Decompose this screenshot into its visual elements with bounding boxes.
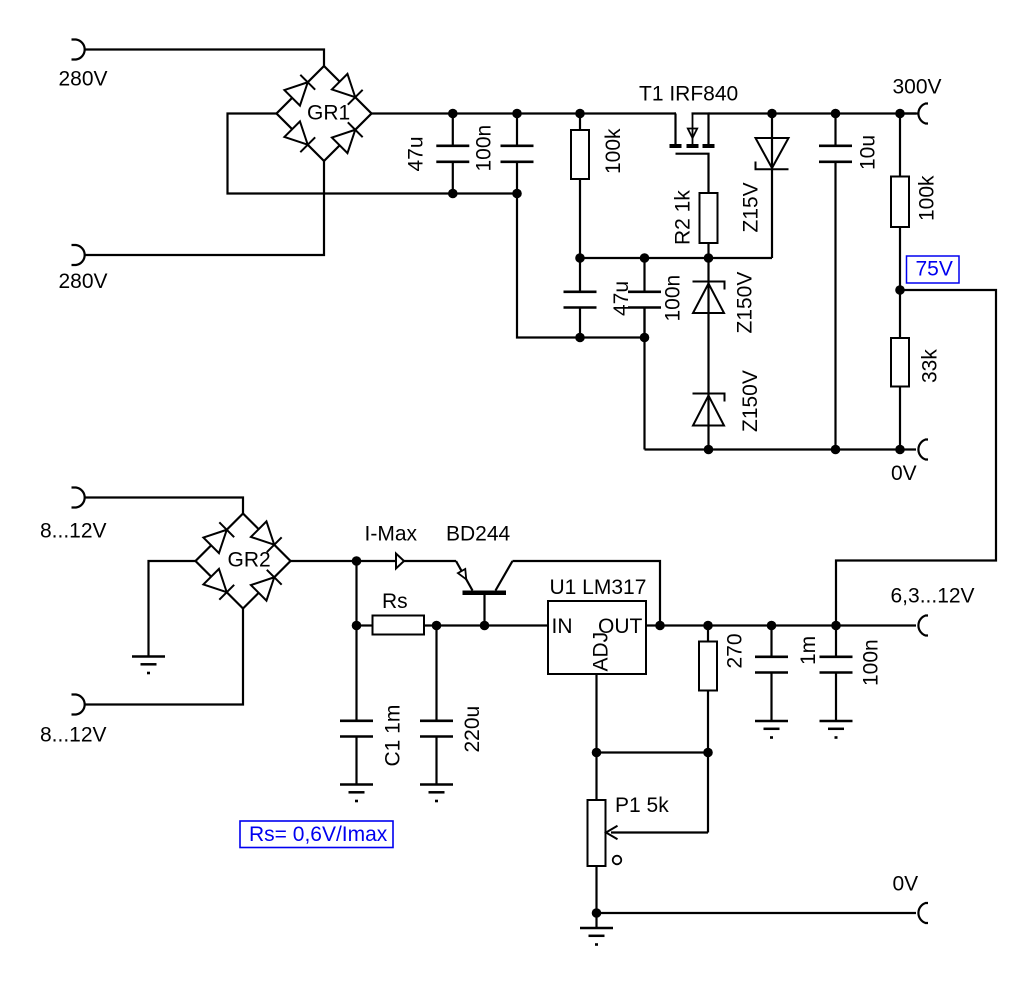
diode arrow I-Max — [396, 554, 404, 569]
wire input-a to GR1 top — [85, 50, 325, 67]
junction dot — [655, 621, 665, 631]
junction dot — [895, 109, 905, 119]
capacitor 10u — [834, 114, 836, 146]
junction dot — [512, 189, 522, 199]
svg-text:Z15V: Z15V — [740, 182, 763, 232]
resistor 100k (divider top) — [899, 114, 901, 177]
transistor T1 source channel bar — [703, 144, 715, 148]
ground (220u) — [420, 783, 453, 786]
svg-text:GR2: GR2 — [228, 549, 271, 572]
svg-text:10u: 10u — [857, 135, 880, 170]
node 75V box — [907, 256, 960, 283]
terminal 280V (input b) — [72, 245, 85, 265]
wire GR2 plus rail — [291, 560, 457, 562]
transistor BD244 emitter lead — [456, 561, 473, 591]
junction dot — [480, 621, 490, 631]
junction dot — [575, 253, 585, 263]
wire source rail to 300V — [709, 112, 917, 114]
junction dot — [512, 109, 522, 119]
svg-text:6,3...12V: 6,3...12V — [891, 585, 975, 608]
junction dot — [592, 908, 602, 918]
svg-text:BD244: BD244 — [446, 523, 511, 546]
terminal 0V (top) — [918, 440, 928, 460]
bridge rectifier GR1 body — [277, 66, 372, 161]
GR1 diode bottom-right — [332, 130, 355, 153]
wire ADJ rail — [597, 751, 709, 753]
terminal 8...12V (input b) — [72, 695, 85, 715]
wire ADJ — [595, 674, 597, 753]
wire GR2 plus drop — [355, 561, 357, 626]
junction dot — [640, 253, 650, 263]
svg-text:100n: 100n — [662, 275, 685, 322]
transistor BD244 emitter arrow — [458, 569, 466, 579]
svg-text:C1 1m: C1 1m — [382, 705, 405, 767]
svg-text:75V: 75V — [916, 257, 953, 280]
junction dot — [831, 109, 841, 119]
ground (GR2) — [132, 655, 165, 658]
wire collector to OUT node — [513, 561, 661, 626]
junction dot — [895, 445, 905, 455]
svg-text:8...12V: 8...12V — [40, 520, 107, 543]
potentiometer end-stop circle — [613, 856, 622, 865]
svg-text:280V: 280V — [59, 270, 108, 293]
junction dot — [831, 621, 841, 631]
svg-text:100n: 100n — [860, 639, 883, 686]
transistor T1 bulk channel bar — [687, 144, 699, 148]
GR2 diode top-right — [251, 521, 274, 544]
wire input to GR2 top — [85, 498, 244, 514]
wire gate rail y=258 — [580, 257, 772, 259]
svg-text:220u: 220u — [461, 706, 484, 753]
resistor 270 — [707, 626, 709, 642]
junction dot — [352, 621, 362, 631]
junction dot — [767, 621, 777, 631]
wire GR2 left to ground — [149, 561, 196, 657]
svg-text:8...12V: 8...12V — [40, 724, 107, 747]
ground (1m) — [755, 720, 788, 723]
svg-text:100k: 100k — [916, 175, 939, 221]
terminal 6,3...12V — [918, 616, 928, 636]
terminal 8...12V (input a) — [72, 488, 85, 508]
wire 0V rail (bottom) — [597, 912, 917, 914]
wire minus rail drop x=517 — [517, 194, 645, 338]
transistor BD244 base bar — [463, 591, 507, 596]
svg-text:47u: 47u — [610, 281, 633, 316]
wire OUT rail — [646, 624, 916, 626]
junction dot — [703, 748, 713, 758]
wire plus rail GR1 to MOSFET drain — [372, 112, 677, 114]
capacitor 47u (gate filter) — [579, 258, 581, 292]
svg-text:ADJ: ADJ — [590, 632, 613, 672]
capacitor 100n (gate filter) — [643, 258, 645, 292]
svg-text:0V: 0V — [893, 873, 919, 896]
wire GR1 bottom to input-b — [85, 161, 325, 255]
ground (100n) — [820, 720, 853, 723]
svg-text:1m: 1m — [797, 636, 820, 665]
wire Rs to U1 IN — [424, 624, 548, 626]
terminal 0V (bottom) — [918, 903, 928, 923]
junction dot 75V node — [895, 285, 905, 295]
ground (C1) — [340, 783, 373, 786]
svg-text:GR1: GR1 — [307, 102, 350, 125]
wire to Rs — [357, 624, 373, 626]
wire to 300V terminal — [900, 112, 918, 114]
svg-text:47u: 47u — [405, 136, 428, 171]
junction dot — [352, 556, 362, 566]
GR1 diode bottom-left — [284, 121, 307, 144]
junction dot — [575, 333, 585, 343]
svg-text:300V: 300V — [893, 76, 942, 99]
svg-text:Rs= 0,6V/Imax: Rs= 0,6V/Imax — [249, 823, 388, 846]
terminal 280V (top input a) — [72, 40, 85, 60]
resistor 100k (gate bias) — [579, 114, 581, 131]
capacitor 220u — [435, 626, 437, 721]
transistor T1 drain channel bar — [670, 144, 682, 148]
transistor BD244 collector lead — [496, 561, 513, 591]
wire GR1 left to minus rail — [228, 114, 518, 194]
svg-text:P1 5k: P1 5k — [615, 794, 669, 817]
ground (P1) — [595, 913, 597, 928]
wire GR2 bottom to input-b — [85, 609, 244, 705]
junction dot — [448, 109, 458, 119]
zener diode Z15V — [756, 138, 789, 168]
GR1 diode top-left — [284, 82, 307, 105]
resistor Rs body — [373, 616, 425, 635]
transistor T1 source lead — [692, 114, 709, 145]
zener diode Z150V (upper) — [693, 284, 724, 314]
svg-text:100k: 100k — [602, 128, 625, 174]
transistor T1 bulk lead — [692, 114, 694, 145]
GR2 diode bottom-right — [251, 577, 274, 600]
transistor T1 bulk arrow — [688, 129, 697, 139]
svg-text:100n: 100n — [473, 125, 496, 172]
wire 75V tap link — [836, 290, 996, 626]
potentiometer P1 wiper — [611, 831, 708, 833]
junction dot — [767, 109, 777, 119]
resistor R2 1k body — [700, 193, 718, 243]
resistor 33k — [899, 290, 901, 338]
capacitor 100n (input filter) — [516, 114, 518, 146]
junction dot — [592, 748, 602, 758]
svg-text:Z150V: Z150V — [734, 272, 757, 334]
svg-text:33k: 33k — [919, 349, 942, 383]
regulator U1 LM317 box — [548, 601, 646, 674]
wire 0V rail (top section) — [645, 448, 917, 450]
svg-text:270: 270 — [724, 633, 747, 668]
svg-text:280V: 280V — [59, 67, 108, 90]
GR2 diode bottom-left — [203, 569, 226, 592]
junction dot — [432, 621, 442, 631]
GR2 diode top-left — [203, 530, 226, 553]
terminal 300V — [918, 104, 928, 124]
potentiometer P1 body — [595, 753, 597, 801]
junction dot — [575, 109, 585, 119]
svg-text:T1 IRF840: T1 IRF840 — [639, 83, 738, 106]
transistor T1 gate line — [676, 154, 709, 193]
svg-text:IN: IN — [552, 615, 573, 638]
capacitor C1 1m — [355, 626, 357, 721]
svg-text:Z150V: Z150V — [739, 370, 762, 432]
capacitor 1m (output) — [770, 626, 772, 657]
svg-text:I-Max: I-Max — [365, 523, 418, 546]
junction dot — [640, 333, 650, 343]
junction dot — [831, 445, 841, 455]
GR1 diode top-right — [332, 74, 355, 97]
svg-text:R2 1k: R2 1k — [672, 190, 695, 245]
junction dot — [704, 253, 714, 263]
svg-text:0V: 0V — [891, 462, 917, 485]
junction dot — [448, 189, 458, 199]
transistor T1 drain lead — [674, 114, 677, 145]
bridge rectifier GR2 body — [196, 514, 291, 609]
svg-text:Rs: Rs — [382, 590, 408, 613]
zener diode Z150V (lower) — [693, 396, 724, 426]
junction dot — [704, 445, 714, 455]
capacitor 47u (input filter) — [452, 114, 454, 146]
junction dot — [703, 621, 713, 631]
formula box Rs — [240, 821, 393, 848]
svg-text:U1 LM317: U1 LM317 — [550, 576, 647, 599]
capacitor 100n (output) — [835, 626, 837, 657]
transistor BD244 base lead — [483, 595, 485, 626]
